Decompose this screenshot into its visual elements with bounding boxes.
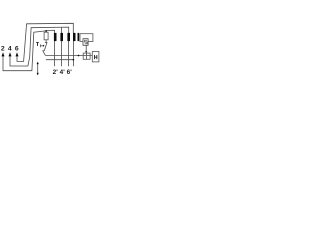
svg-text:2': 2' (53, 69, 59, 76)
svg-text:4: 4 (8, 46, 12, 53)
svg-text:6': 6' (67, 69, 73, 76)
svg-text:2: 2 (1, 46, 5, 53)
svg-text:4': 4' (60, 69, 66, 76)
svg-text:6: 6 (15, 46, 19, 53)
